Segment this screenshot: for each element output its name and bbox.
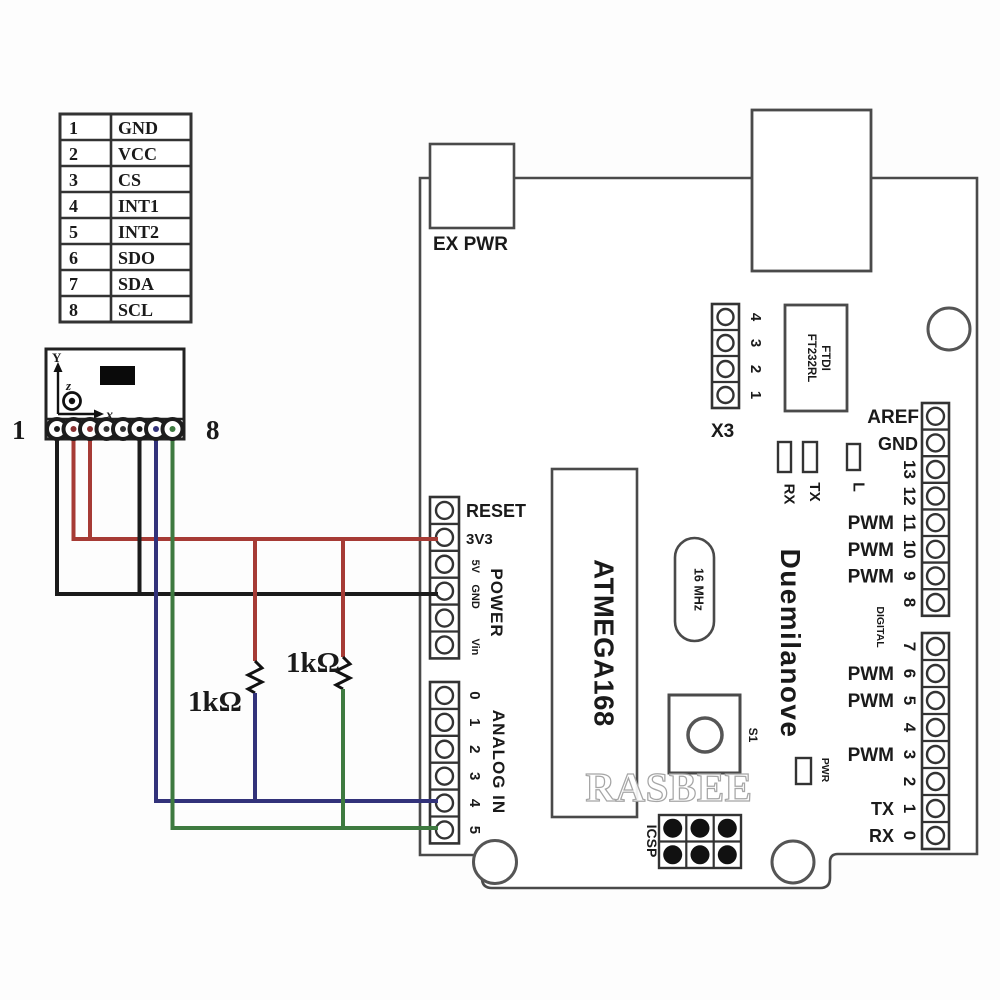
svg-text:RASBEE: RASBEE xyxy=(585,764,752,810)
svg-text:0: 0 xyxy=(900,831,919,840)
svg-text:5: 5 xyxy=(69,222,78,242)
svg-text:9: 9 xyxy=(900,571,919,580)
svg-text:AREF: AREF xyxy=(867,407,919,428)
svg-text:DIGITAL: DIGITAL xyxy=(874,606,886,648)
svg-text:PWR: PWR xyxy=(819,758,831,783)
svg-text:1: 1 xyxy=(69,118,78,138)
svg-text:RX: RX xyxy=(781,484,798,505)
svg-text:FT232RL: FT232RL xyxy=(805,334,817,383)
svg-text:SDO: SDO xyxy=(118,248,155,268)
svg-text:VCC: VCC xyxy=(118,144,157,164)
svg-text:8: 8 xyxy=(900,598,919,607)
svg-text:EX PWR: EX PWR xyxy=(433,234,508,255)
svg-text:8: 8 xyxy=(206,415,220,445)
svg-text:6: 6 xyxy=(69,248,78,268)
svg-text:3: 3 xyxy=(69,170,78,190)
svg-text:5: 5 xyxy=(466,826,483,834)
svg-text:3: 3 xyxy=(747,339,764,347)
svg-text:4: 4 xyxy=(466,799,483,808)
svg-text:10: 10 xyxy=(900,540,919,559)
svg-text:RX: RX xyxy=(869,826,894,846)
svg-text:13: 13 xyxy=(900,460,919,479)
svg-text:CS: CS xyxy=(118,170,141,190)
svg-text:1kΩ: 1kΩ xyxy=(188,686,242,718)
svg-text:X3: X3 xyxy=(711,421,734,442)
svg-text:16 MHz: 16 MHz xyxy=(692,568,706,611)
svg-text:SCL: SCL xyxy=(118,300,153,320)
svg-text:3: 3 xyxy=(466,772,483,780)
svg-text:TX: TX xyxy=(871,799,894,819)
svg-text:L: L xyxy=(850,482,867,492)
svg-text:2: 2 xyxy=(69,144,78,164)
svg-text:SDA: SDA xyxy=(118,274,154,294)
svg-text:PWM: PWM xyxy=(848,691,894,712)
svg-text:PWM: PWM xyxy=(848,745,894,766)
svg-text:1: 1 xyxy=(466,718,483,726)
svg-text:4: 4 xyxy=(900,723,919,733)
svg-text:5: 5 xyxy=(900,696,919,705)
svg-text:Duemilanove: Duemilanove xyxy=(775,549,806,739)
svg-text:GND: GND xyxy=(878,434,918,454)
svg-text:1: 1 xyxy=(12,415,26,445)
svg-text:3: 3 xyxy=(900,750,919,759)
svg-text:PWM: PWM xyxy=(848,566,894,587)
svg-text:GND: GND xyxy=(469,584,481,609)
svg-text:FTDI: FTDI xyxy=(819,345,831,371)
svg-text:7: 7 xyxy=(69,274,78,294)
svg-text:PWM: PWM xyxy=(848,664,894,685)
svg-text:1kΩ: 1kΩ xyxy=(286,647,340,679)
svg-text:2: 2 xyxy=(900,777,919,786)
svg-text:TX: TX xyxy=(806,482,823,501)
svg-text:ICSP: ICSP xyxy=(644,825,660,858)
svg-text:Vin: Vin xyxy=(469,638,481,655)
svg-text:6: 6 xyxy=(900,669,919,678)
svg-text:7: 7 xyxy=(900,642,919,651)
svg-text:ANALOG IN: ANALOG IN xyxy=(489,710,508,814)
svg-text:8: 8 xyxy=(69,300,78,320)
svg-text:0: 0 xyxy=(466,691,483,699)
svg-text:Y: Y xyxy=(52,350,62,365)
svg-text:2: 2 xyxy=(747,365,764,373)
svg-text:POWER: POWER xyxy=(487,568,506,637)
svg-text:3V3: 3V3 xyxy=(466,531,493,548)
svg-text:GND: GND xyxy=(118,118,158,138)
svg-text:1: 1 xyxy=(747,391,764,399)
svg-text:1: 1 xyxy=(900,804,919,813)
svg-text:RESET: RESET xyxy=(466,501,526,521)
svg-text:z: z xyxy=(65,378,72,393)
svg-text:4: 4 xyxy=(747,313,764,322)
svg-text:PWM: PWM xyxy=(848,513,894,534)
svg-text:PWM: PWM xyxy=(848,540,894,561)
svg-text:ATMEGA168: ATMEGA168 xyxy=(589,559,620,727)
svg-text:5V: 5V xyxy=(469,560,481,574)
svg-text:INT2: INT2 xyxy=(118,222,159,242)
svg-text:4: 4 xyxy=(69,196,78,216)
svg-text:12: 12 xyxy=(900,487,919,506)
svg-text:11: 11 xyxy=(900,514,919,532)
svg-text:INT1: INT1 xyxy=(118,196,159,216)
svg-text:S1: S1 xyxy=(746,728,760,743)
svg-text:2: 2 xyxy=(466,745,483,753)
